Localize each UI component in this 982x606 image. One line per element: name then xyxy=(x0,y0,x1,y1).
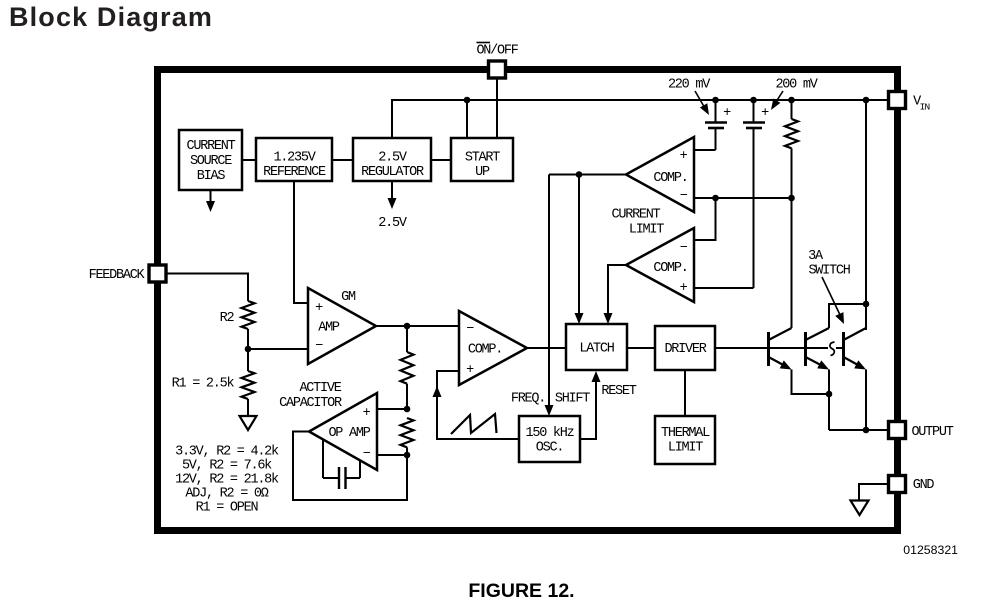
wire: bias to reference xyxy=(242,159,256,161)
resistor compensation lower xyxy=(401,418,414,447)
wire: driver to switch base xyxy=(715,347,828,349)
node dots on vin rail xyxy=(464,97,471,104)
svg-text:Block Diagram: Block Diagram xyxy=(9,2,213,32)
wire: start-up top to rail xyxy=(466,100,468,138)
resistor R1 xyxy=(242,371,255,399)
frame: IC boundary xyxy=(158,70,898,531)
svg-text:COMP.: COMP. xyxy=(653,171,687,186)
svg-text:COMP.: COMP. xyxy=(468,343,502,358)
wire: gm amp output to comparator minus input xyxy=(376,325,459,327)
wire: reference to gm amp plus input xyxy=(294,181,308,303)
resistor R2 xyxy=(242,301,255,329)
svg-text:START: START xyxy=(465,151,500,166)
svg-text:OUTPUT: OUTPUT xyxy=(911,425,953,440)
box THERMAL LIMIT xyxy=(655,416,715,464)
resistor current sense xyxy=(785,100,798,328)
svg-text:RESET: RESET xyxy=(601,384,636,399)
wire: op amp minus input xyxy=(376,454,407,456)
box START UP xyxy=(451,138,513,181)
resistor compensation upper xyxy=(401,352,414,384)
node op amp plus xyxy=(404,406,411,413)
wire: op amp plus input xyxy=(376,408,407,410)
svg-text:SHIFT: SHIFT xyxy=(555,392,590,407)
wire: comparator 1 minus input line xyxy=(694,197,792,199)
svg-text:UP: UP xyxy=(475,165,490,180)
waveform sawtooth xyxy=(451,414,497,434)
svg-text:2.5V: 2.5V xyxy=(378,151,408,166)
wire: current limit comparator 2 output to latch xyxy=(608,265,626,318)
box 150 kHz OSC xyxy=(519,416,580,462)
svg-text:DRIVER: DRIVER xyxy=(664,342,706,357)
box LATCH xyxy=(566,324,627,370)
svg-text:−: − xyxy=(363,447,371,462)
svg-text:ADJ, R2 = 0Ω: ADJ, R2 = 0Ω xyxy=(185,487,268,502)
wire: on/off pin to start-up xyxy=(496,78,498,138)
wire: current limit comparator 1 output to latch xyxy=(549,174,626,176)
wire: output rail to output pin xyxy=(829,429,889,431)
svg-text:5V, R2 = 7.6k: 5V, R2 = 7.6k xyxy=(182,459,272,474)
squiggle on base line xyxy=(830,342,835,356)
svg-text:−: − xyxy=(315,339,323,354)
svg-text:−: − xyxy=(680,241,688,256)
svg-text:SWITCH: SWITCH xyxy=(808,264,850,279)
svg-text:+: + xyxy=(363,406,371,421)
transistor Q1 xyxy=(769,328,792,370)
transistor Q3 xyxy=(844,328,867,370)
svg-text:BIAS: BIAS xyxy=(197,169,226,184)
transistor Q2 xyxy=(806,328,830,370)
wire: resistor to op amp plus node xyxy=(406,384,408,409)
svg-text:2.5V: 2.5V xyxy=(378,216,408,231)
svg-text:FEEDBACK: FEEDBACK xyxy=(89,268,146,283)
svg-text:+: + xyxy=(723,106,731,121)
svg-text:THERMAL: THERMAL xyxy=(661,426,710,441)
svg-text:150 kHz: 150 kHz xyxy=(526,426,575,441)
svg-text:LATCH: LATCH xyxy=(579,342,614,357)
capacitor 220 mV reference xyxy=(694,100,731,150)
svg-text:R1 = OPEN: R1 = OPEN xyxy=(196,501,259,516)
svg-text:3.3V, R2 = 4.2k: 3.3V, R2 = 4.2k xyxy=(175,445,279,460)
svg-text:ON/OFF: ON/OFF xyxy=(476,44,518,59)
wire: pwm comparator plus input from oscillator xyxy=(437,371,519,439)
op-amp U1 (active capacitor) xyxy=(309,393,377,470)
svg-text:200 mV: 200 mV xyxy=(775,78,818,93)
wire: driver to thermal limit xyxy=(684,370,686,416)
wire: pwm comparator output to latch xyxy=(527,347,566,349)
wire: R2 to R1 junction xyxy=(247,329,249,371)
svg-text:FIGURE 12.: FIGURE 12. xyxy=(468,580,574,602)
wire: reference to regulator xyxy=(332,159,353,161)
wire: resistor to op amp minus node xyxy=(406,447,408,455)
svg-text:SOURCE: SOURCE xyxy=(190,154,232,169)
node op amp minus xyxy=(404,452,411,459)
wire: Q2 emitter to output rail xyxy=(828,370,830,431)
op-amp PWM comparator xyxy=(459,311,527,385)
svg-text:REGULATOR: REGULATOR xyxy=(361,165,424,180)
svg-text:OP AMP: OP AMP xyxy=(328,426,370,441)
op-amp current limit comparator 2 xyxy=(626,228,694,302)
wire: top rail from 2.5V regulator to VIN pin xyxy=(392,100,889,138)
wire: freq shift from current limit comparator to oscillator xyxy=(548,175,550,411)
box DRIVER xyxy=(655,326,715,370)
svg-text:CURRENT: CURRENT xyxy=(187,139,236,154)
capacitor 200 mV reference xyxy=(694,100,769,288)
svg-text:220 mV: 220 mV xyxy=(668,78,711,93)
svg-text:+: + xyxy=(466,363,474,378)
svg-text:−: − xyxy=(680,189,688,204)
wire: latch to driver xyxy=(627,347,655,349)
wire: regulator 2.5V output arrow xyxy=(391,181,393,200)
svg-text:LIMIT: LIMIT xyxy=(629,223,664,238)
svg-text:CAPACITOR: CAPACITOR xyxy=(279,396,342,411)
svg-text:−: − xyxy=(466,322,474,337)
svg-text:CURRENT: CURRENT xyxy=(612,208,661,223)
box 1.235V REFERENCE xyxy=(256,138,332,181)
wire: vin rail down to switch collectors xyxy=(865,100,867,330)
svg-text:REFERENCE: REFERENCE xyxy=(263,165,326,180)
wire: Q1 emitter to Q2 emitter node xyxy=(792,370,830,395)
op-amp current limit comparator 1 xyxy=(626,137,694,212)
wire: R1 to ground arrow xyxy=(247,399,249,416)
wire: feedback pin to R2 xyxy=(166,274,248,302)
svg-text:GM: GM xyxy=(341,290,356,305)
wire: comparator 2 minus input xyxy=(694,198,716,240)
svg-text:IN: IN xyxy=(920,102,930,113)
wire: bias ground arrow xyxy=(210,190,212,203)
svg-text:+: + xyxy=(680,149,688,164)
pin OUTPUT xyxy=(889,422,906,439)
pin FEEDBACK xyxy=(149,265,166,282)
svg-text:FREQ.: FREQ. xyxy=(511,392,545,407)
svg-text:ACTIVE: ACTIVE xyxy=(299,381,341,396)
pin VIN xyxy=(889,92,906,109)
svg-text:OSC.: OSC. xyxy=(536,441,563,456)
svg-text:LIMIT: LIMIT xyxy=(668,441,703,456)
wire: junction to gm amp minus input xyxy=(248,348,308,350)
note: R2 value table xyxy=(175,445,279,516)
pin GND xyxy=(889,476,906,493)
wire: op amp feedback loop xyxy=(293,432,407,501)
wire: gm output down to compensation resistor xyxy=(406,326,408,352)
svg-text:+: + xyxy=(315,301,323,316)
node feedback divider junction xyxy=(245,346,252,353)
ground: open arrow below R1 xyxy=(240,416,257,430)
node gm output xyxy=(404,323,411,330)
svg-text:R2: R2 xyxy=(220,311,235,326)
svg-text:+: + xyxy=(680,281,688,296)
node collector junction xyxy=(863,301,870,308)
pin ON/OFF xyxy=(489,61,506,78)
wire: Q2 collector jog xyxy=(829,304,866,328)
svg-text:12V, R2 = 21.8k: 12V, R2 = 21.8k xyxy=(175,473,279,488)
op-amp GM error amplifier xyxy=(308,288,376,364)
ground symbol at GND pin xyxy=(859,484,889,500)
svg-text:COMP.: COMP. xyxy=(653,261,687,276)
svg-text:3A: 3A xyxy=(808,249,824,264)
svg-text:01258321: 01258321 xyxy=(903,543,958,557)
wire: oscillator reset to latch xyxy=(580,377,596,439)
wire: Q3 emitter to output rail xyxy=(865,370,867,431)
capacitor: active capacitor internal cap xyxy=(323,439,360,489)
wire: regulator to start-up xyxy=(431,159,451,161)
box CURRENT SOURCE BIAS xyxy=(179,130,242,190)
box 2.5V REGULATOR xyxy=(353,138,431,181)
svg-text:1.235V: 1.235V xyxy=(273,151,316,166)
svg-text:AMP: AMP xyxy=(318,321,340,336)
svg-text:GND: GND xyxy=(913,478,935,493)
svg-text:R1 = 2.5k: R1 = 2.5k xyxy=(172,377,235,392)
svg-text:+: + xyxy=(761,106,769,121)
arrow on oscillator ramp feed xyxy=(433,386,442,397)
